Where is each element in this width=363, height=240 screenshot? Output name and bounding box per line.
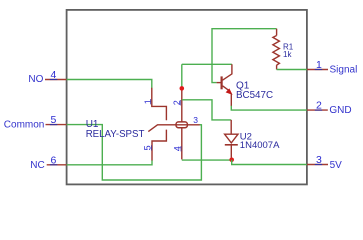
svg-text:BC547C: BC547C — [236, 90, 273, 101]
wire base net from R1 top — [212, 29, 277, 83]
svg-text:NO: NO — [28, 74, 43, 85]
relay coil lead vertical — [181, 89, 183, 159]
wire NC net — [67, 160, 152, 165]
transistor Q1 emitter lead — [223, 86, 230, 91]
diode U2 triangle — [225, 134, 238, 143]
wire 5V rail to pin — [232, 160, 307, 165]
resistor R1 bottom lead — [276, 65, 278, 69]
wire R1 bottom to Signal pin — [277, 69, 307, 71]
transistor Q1 emitter vertical — [230, 94, 232, 107]
pin NC stub — [47, 164, 67, 166]
module outline — [67, 10, 307, 185]
svg-text:Common: Common — [4, 120, 45, 131]
wire NO net — [67, 80, 152, 89]
resistor R1 top lead — [276, 29, 278, 36]
pin GND stub — [307, 109, 328, 111]
relay coil pin4 to 5V rail — [182, 159, 232, 161]
relay U1 pin5 lead — [152, 130, 166, 161]
svg-text:1: 1 — [143, 99, 153, 104]
resistor R1 zigzag — [273, 36, 280, 66]
svg-text:1N4007A: 1N4007A — [240, 140, 280, 151]
transistor Q1 base stub — [217, 82, 221, 84]
svg-text:RELAY-SPST: RELAY-SPST — [86, 129, 145, 140]
svg-text:NC: NC — [30, 160, 44, 171]
wire staircase to diode U2 — [182, 100, 231, 120]
wire Common net to relay pin3 — [67, 125, 202, 180]
pin Common stub — [46, 124, 67, 126]
svg-text:1k: 1k — [283, 50, 292, 59]
diode U2 top lead — [230, 120, 232, 134]
pin Signal stub — [307, 69, 328, 71]
relay pin number 5 — [143, 145, 153, 150]
transistor Q1 emitter arrowhead — [227, 89, 232, 94]
relay pin number 4 — [173, 146, 183, 151]
relay pin number 2 — [172, 100, 182, 105]
relay U1 pin1 lead — [152, 88, 167, 120]
svg-text:5V: 5V — [330, 160, 343, 171]
svg-text:Signal: Signal — [330, 65, 358, 76]
wire collector net horizontal — [182, 63, 232, 65]
junction dot diode anode 5V rail — [229, 158, 234, 163]
diode U2 cathode bar — [225, 144, 238, 146]
svg-text:3: 3 — [193, 115, 198, 125]
wire relay pin3 to 5V-crossing vertical — [200, 124, 202, 126]
diode U2 bottom lead — [230, 145, 232, 160]
transistor Q1 base bar — [221, 76, 223, 89]
pin NO stub — [45, 79, 67, 81]
relay pin number 1 — [143, 99, 153, 104]
relay coil box — [176, 122, 187, 128]
relay armature — [148, 125, 200, 132]
svg-text:GND: GND — [329, 105, 351, 116]
transistor Q1 collector lead — [223, 64, 232, 80]
junction dot coil pin2 — [180, 86, 185, 91]
wire coil pin2 to collector net vertical — [181, 64, 183, 89]
pin 5V stub — [307, 164, 328, 166]
wire emitter to GND pin — [231, 106, 307, 110]
